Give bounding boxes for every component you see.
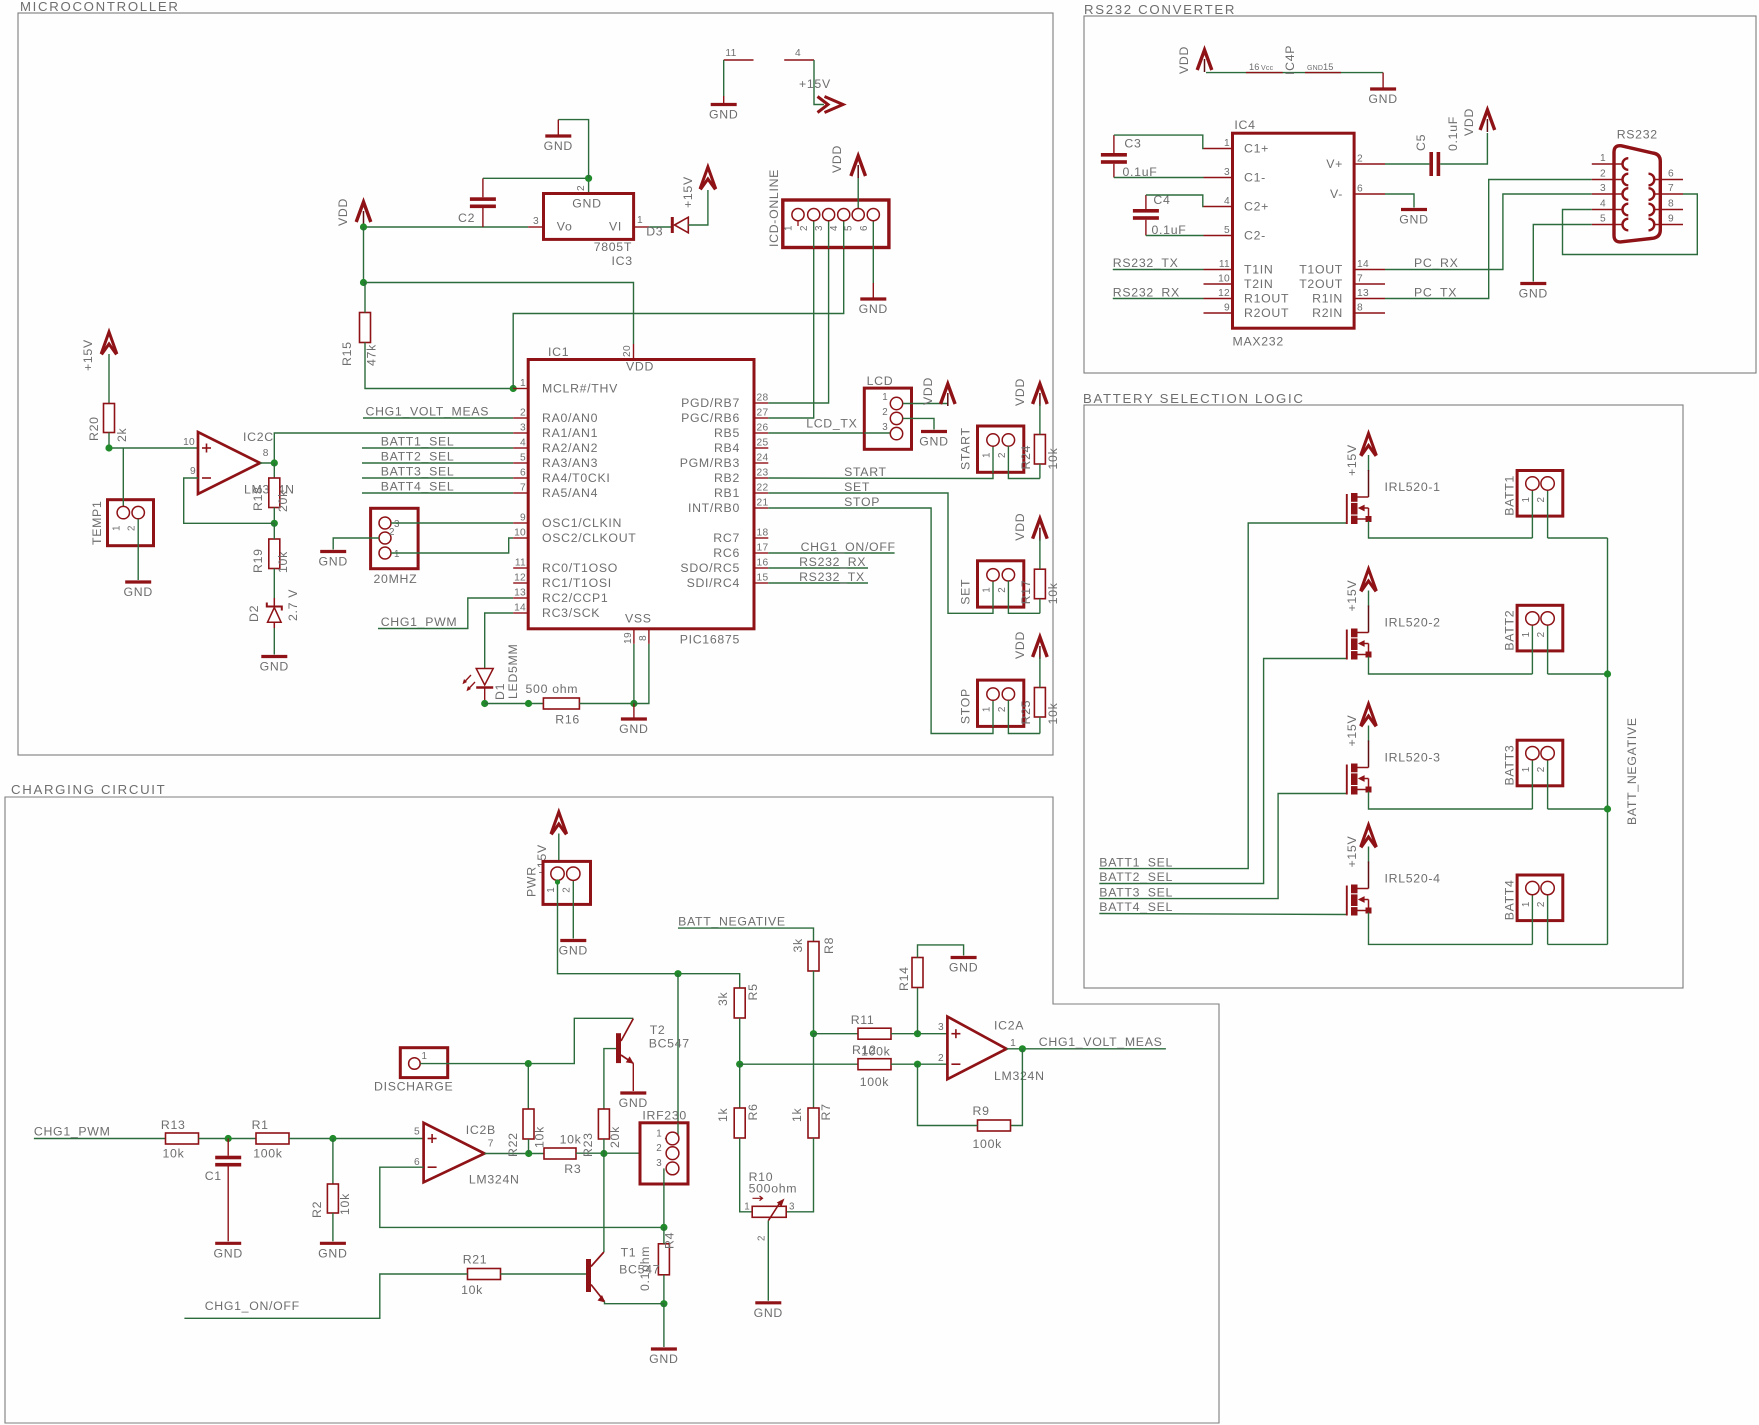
wire BATT4 pin2 lead bbox=[1547, 894, 1549, 944]
svg-text:16: 16 bbox=[1249, 62, 1260, 72]
resistor R22 10k bbox=[523, 1109, 534, 1139]
pin 10 T2IN of IC4 bbox=[1204, 283, 1233, 285]
svg-text:6: 6 bbox=[859, 225, 870, 231]
wire +15V to drain of IRL520-3 bbox=[1368, 726, 1370, 742]
wire R16 to VSS/GND bbox=[579, 703, 634, 705]
pin 13 RC2/CCP1 of IC1 bbox=[513, 597, 528, 599]
pin 3 RA1/AN1 of IC1 bbox=[513, 432, 528, 434]
pin 6 RA4/T0CKI of IC1 bbox=[513, 477, 528, 479]
wire R13 to R1 bbox=[199, 1138, 257, 1140]
trimpot R10 500ohm bbox=[752, 1206, 786, 1217]
svg-text:CHG1_ON/OFF: CHG1_ON/OFF bbox=[205, 1299, 300, 1313]
wire PC_TX R1IN to DB9 pin2 bbox=[1385, 180, 1592, 299]
svg-text:28: 28 bbox=[757, 393, 769, 404]
svg-text:16: 16 bbox=[757, 558, 769, 569]
svg-text:PWR: PWR bbox=[525, 866, 539, 897]
wire LED to R16 bbox=[485, 703, 544, 705]
pin 14 T1OUT of IC4 bbox=[1354, 269, 1385, 271]
wire BATT2 pin1 lead bbox=[1531, 624, 1533, 674]
svg-text:BATT1_SEL: BATT1_SEL bbox=[381, 435, 455, 449]
ground GND (LCD) bbox=[921, 430, 947, 433]
capacitor C1 bbox=[227, 1139, 229, 1156]
zener diode D2 2.7V bbox=[273, 598, 275, 607]
resistor R13 10k bbox=[166, 1133, 199, 1144]
pad 5 of ICD-ONLINE bbox=[852, 209, 864, 221]
pin 11 T1IN of IC4 bbox=[1204, 269, 1233, 271]
wire PWR pin2 to GND bbox=[572, 874, 574, 939]
wire START pin2 to resistor bbox=[1008, 446, 1040, 479]
svg-text:500 ohm: 500 ohm bbox=[526, 682, 579, 696]
svg-text:IRL520-1: IRL520-1 bbox=[1385, 480, 1441, 494]
svg-text:+15V: +15V bbox=[81, 339, 95, 371]
svg-text:C1-: C1- bbox=[1244, 171, 1266, 185]
op-amp IC2B bbox=[424, 1123, 485, 1183]
svg-text:8: 8 bbox=[638, 635, 649, 641]
svg-text:R2OUT: R2OUT bbox=[1244, 306, 1289, 320]
pin 9 of RS232 DB9 bbox=[1654, 224, 1683, 226]
svg-text:R9: R9 bbox=[973, 1104, 990, 1118]
pad 3 of ICD-ONLINE bbox=[823, 209, 835, 221]
wire BATT3 pin2 to BATT_NEGATIVE bus bbox=[1548, 808, 1608, 810]
svg-text:20k: 20k bbox=[608, 1126, 622, 1148]
wire BATT3_SEL to RA4 bbox=[362, 477, 513, 479]
pin 20 stub VDD bbox=[633, 344, 635, 360]
wire BATT1 pin2 lead bbox=[1547, 490, 1549, 539]
wire BATT1_SEL to RA2 bbox=[362, 447, 513, 449]
wire IC2B minus feedback bbox=[380, 1167, 664, 1227]
svg-text:R1OUT: R1OUT bbox=[1244, 292, 1289, 306]
connector SET button bbox=[978, 561, 1024, 607]
connector BATT1 bbox=[1517, 471, 1563, 517]
connector PWR bbox=[543, 861, 591, 904]
wire BATT2_SEL to gate of IRL520-2 bbox=[1099, 659, 1347, 884]
pin 27 PGC/RB6 of IC1 bbox=[754, 417, 768, 419]
svg-text:T2OUT: T2OUT bbox=[1299, 277, 1343, 291]
junction R18/R19 bbox=[271, 520, 278, 527]
junction LED cathode bbox=[481, 700, 488, 707]
wire DB9 pin4 to pin7 loop bbox=[1563, 194, 1698, 255]
svg-text:1: 1 bbox=[546, 887, 557, 893]
svg-text:+15V: +15V bbox=[1345, 444, 1359, 476]
pin 5 C2- of IC4 bbox=[1204, 235, 1233, 237]
capacitor C2 bbox=[482, 208, 484, 228]
pin 8 of RS232 DB9 bbox=[1654, 209, 1683, 211]
svg-text:GND: GND bbox=[649, 1352, 678, 1366]
supply VDD arrow at regulator output bbox=[356, 202, 371, 222]
junction at R16 left bbox=[525, 700, 532, 707]
svg-text:11: 11 bbox=[725, 48, 736, 59]
svg-text:BATT2: BATT2 bbox=[1503, 610, 1517, 651]
pin 16 VCC stub IC4P bbox=[1246, 72, 1283, 74]
svg-text:24: 24 bbox=[757, 453, 769, 464]
svg-text:3: 3 bbox=[1600, 183, 1606, 194]
svg-text:R23: R23 bbox=[581, 1132, 595, 1157]
svg-text:1: 1 bbox=[784, 225, 795, 231]
transistor IRL520-2 MOSFET bbox=[1368, 606, 1370, 633]
svg-text:BATTERY SELECTION LOGIC: BATTERY SELECTION LOGIC bbox=[1083, 391, 1305, 406]
wire BATT1_SEL to gate of IRL520-1 bbox=[1099, 523, 1347, 869]
svg-text:R21: R21 bbox=[463, 1253, 488, 1267]
svg-text:2: 2 bbox=[997, 452, 1008, 458]
pin 4 power stub of IC2 bbox=[784, 59, 814, 61]
RS232 driver IC4 MAX232 bbox=[1233, 133, 1355, 328]
wire CHG1_ON/OFF stub bbox=[768, 552, 894, 554]
wire V+ to C5 bbox=[1385, 163, 1429, 165]
supply +15V (PWR) bbox=[551, 812, 567, 834]
svg-text:SET: SET bbox=[844, 480, 870, 494]
microcontroller IC1 PIC16875 bbox=[528, 360, 754, 629]
wire pin4 to +15V bbox=[814, 60, 824, 105]
ground GND (TEMP1) bbox=[125, 580, 151, 583]
wire LCD pin2 to GND bbox=[903, 418, 934, 429]
svg-text:3: 3 bbox=[656, 1158, 662, 1169]
svg-text:PGD/RB7: PGD/RB7 bbox=[681, 396, 740, 410]
ground GND (IC2 pin11) bbox=[723, 96, 725, 105]
svg-text:GND: GND bbox=[1519, 287, 1548, 301]
svg-text:10k: 10k bbox=[1046, 447, 1060, 469]
pin 1 of RS232 DB9 bbox=[1592, 163, 1623, 165]
wire C5 to VDD bbox=[1440, 133, 1487, 164]
supply VDD (ICD pin5) bbox=[851, 156, 866, 176]
svg-text:CHG1_PWM: CHG1_PWM bbox=[381, 615, 458, 629]
svg-text:CHARGING CIRCUIT: CHARGING CIRCUIT bbox=[11, 782, 166, 797]
svg-text:R7: R7 bbox=[819, 1103, 833, 1120]
svg-text:10k: 10k bbox=[560, 1133, 582, 1147]
pin 8 stub VSS bbox=[648, 629, 650, 644]
wire RC3 to LED D1 bbox=[485, 613, 514, 668]
resistor R17 10k bbox=[1034, 569, 1045, 599]
junction bus/BATT3 bbox=[1604, 805, 1611, 812]
svg-text:3: 3 bbox=[882, 422, 888, 433]
svg-text:R13: R13 bbox=[161, 1118, 186, 1132]
svg-text:9: 9 bbox=[190, 466, 196, 477]
svg-text:GND: GND bbox=[1399, 213, 1428, 227]
svg-text:7: 7 bbox=[520, 483, 526, 494]
connector ICD-ONLINE bbox=[783, 200, 889, 248]
svg-text:IRL520-3: IRL520-3 bbox=[1385, 751, 1441, 765]
svg-text:4: 4 bbox=[795, 48, 801, 59]
wire R24 bottom bbox=[1039, 464, 1041, 479]
svg-text:2: 2 bbox=[1600, 169, 1606, 180]
svg-text:DISCHARGE: DISCHARGE bbox=[374, 1080, 453, 1094]
svg-text:GND: GND bbox=[123, 585, 152, 599]
wire +15V to R20 bbox=[108, 354, 110, 404]
junction VDD/R15 bbox=[360, 279, 367, 286]
supply VDD (START) bbox=[1033, 384, 1048, 404]
wire down to R7 bbox=[813, 1034, 815, 1108]
resistor R4 0.1ohm bbox=[658, 1244, 669, 1275]
svg-text:SDI/RC4: SDI/RC4 bbox=[687, 576, 740, 590]
svg-text:BATT2_SEL: BATT2_SEL bbox=[381, 450, 455, 464]
svg-text:1: 1 bbox=[637, 215, 643, 226]
wire output down to R18 bbox=[273, 463, 275, 478]
svg-text:IRL520-4: IRL520-4 bbox=[1385, 872, 1441, 886]
wire ICD pin3 lead bbox=[828, 221, 830, 248]
svg-text:+15V: +15V bbox=[1345, 715, 1359, 747]
wire down to R6 bbox=[739, 1064, 741, 1108]
connector START button bbox=[978, 426, 1024, 472]
svg-text:13: 13 bbox=[1357, 288, 1369, 299]
wire SET net bbox=[768, 493, 993, 613]
svg-text:BATT3_SEL: BATT3_SEL bbox=[381, 465, 455, 479]
svg-text:2: 2 bbox=[127, 525, 138, 531]
pin 6 V- of IC4 bbox=[1354, 193, 1385, 195]
pin 19 stub VSS bbox=[633, 629, 635, 644]
wire C2 top to 7805 GND pin bbox=[483, 178, 589, 193]
svg-text:RA4/T0CKI: RA4/T0CKI bbox=[542, 471, 611, 485]
op-amp IC2C bbox=[198, 432, 260, 494]
svg-text:15: 15 bbox=[757, 573, 769, 584]
pin 7 of RS232 DB9 bbox=[1654, 193, 1683, 195]
wire PGD/RB7 to ICD pin3 bbox=[768, 221, 828, 403]
svg-text:5: 5 bbox=[844, 225, 855, 231]
wire BATT1 pin1 lead bbox=[1531, 490, 1533, 539]
svg-text:IC3: IC3 bbox=[612, 254, 633, 268]
svg-text:TEMP1: TEMP1 bbox=[90, 501, 104, 546]
svg-text:IC1: IC1 bbox=[548, 345, 569, 359]
resistor R19 10k bbox=[269, 539, 280, 569]
svg-text:100k: 100k bbox=[973, 1137, 1003, 1151]
svg-text:SET: SET bbox=[959, 579, 973, 605]
svg-text:R19: R19 bbox=[251, 548, 265, 573]
svg-text:4: 4 bbox=[520, 438, 526, 449]
wire SET pin1 lead bbox=[992, 581, 994, 608]
svg-text:LCD: LCD bbox=[867, 374, 894, 388]
svg-text:11: 11 bbox=[1219, 259, 1230, 270]
svg-text:10k: 10k bbox=[533, 1126, 547, 1148]
svg-text:MAX232: MAX232 bbox=[1233, 335, 1284, 349]
wire R19 top bbox=[273, 523, 275, 539]
wire R1 to IC2B plus bbox=[289, 1138, 424, 1140]
svg-text:+15V: +15V bbox=[1345, 836, 1359, 868]
svg-text:1: 1 bbox=[520, 378, 526, 389]
supply +15V (IRL520-4) bbox=[1361, 825, 1377, 847]
pin 5 RA3/AN3 of IC1 bbox=[513, 462, 528, 464]
pin 15 GND stub IC4P bbox=[1305, 72, 1341, 74]
junction IRF source / R4 / feedback bbox=[660, 1224, 667, 1231]
svg-text:BATT1_SEL: BATT1_SEL bbox=[1099, 855, 1173, 869]
wire BATT4_SEL to gate of IRL520-4 bbox=[1099, 914, 1347, 915]
wire C3 top to IC4 pin1 bbox=[1114, 135, 1204, 148]
junction R4/T1 emitter bbox=[660, 1300, 667, 1307]
svg-text:LCD_TX: LCD_TX bbox=[806, 417, 857, 431]
svg-text:R1IN: R1IN bbox=[1312, 292, 1343, 306]
wire BATT2_SEL to RA3 bbox=[362, 462, 513, 464]
svg-text:IC2B: IC2B bbox=[466, 1123, 496, 1137]
pin 21 INT/RB0 of IC1 bbox=[754, 507, 768, 509]
wire IRF230 pin1 lead inside box bbox=[665, 1123, 678, 1139]
frame BATTERY SELECTION LOGIC section bbox=[1084, 405, 1683, 988]
capacitor C5 0.1uF bbox=[1429, 152, 1433, 176]
wire SET pin2 to resistor bbox=[1008, 581, 1040, 614]
junction +15V rail / IRF pin1 bbox=[674, 970, 681, 977]
wire +15V to drain of IRL520-1 bbox=[1368, 455, 1370, 471]
connector RS232 DB9 bbox=[1614, 146, 1660, 242]
svg-text:RA3/AN3: RA3/AN3 bbox=[542, 456, 598, 470]
wire pin11 to GND bbox=[723, 60, 725, 96]
svg-text:17: 17 bbox=[757, 543, 769, 554]
wire down to R22 bbox=[527, 1064, 529, 1109]
svg-text:R2: R2 bbox=[310, 1201, 324, 1218]
pin 3 stub 7805 bbox=[528, 226, 543, 228]
svg-text:100k: 100k bbox=[861, 1045, 891, 1059]
svg-text:4: 4 bbox=[829, 225, 840, 231]
svg-text:PGC/RB6: PGC/RB6 bbox=[681, 411, 740, 425]
connector TEMP1 bbox=[108, 500, 154, 546]
ground GND (DB9 pin5) bbox=[1520, 282, 1546, 285]
svg-text:STOP: STOP bbox=[844, 495, 880, 509]
supply VDD (IC4 power) bbox=[1197, 50, 1212, 70]
frame CHARGING CIRCUIT section bbox=[5, 797, 1219, 1423]
wire to GND bbox=[663, 1304, 665, 1347]
wire START pin1 lead bbox=[992, 446, 994, 473]
svg-text:RC1/T1OSI: RC1/T1OSI bbox=[542, 576, 612, 590]
resistor R11 100k bbox=[858, 1028, 891, 1039]
power MOSFET connector IRF230 bbox=[640, 1123, 688, 1184]
svg-text:2: 2 bbox=[799, 225, 810, 231]
svg-text:+15V: +15V bbox=[1345, 580, 1359, 612]
svg-text:VSS: VSS bbox=[625, 612, 652, 626]
junction bus/BATT2 bbox=[1604, 670, 1611, 677]
wire R11 to IC2A plus bbox=[891, 1033, 947, 1035]
pin 22 RB1 of IC1 bbox=[754, 492, 768, 494]
svg-text:27: 27 bbox=[757, 408, 769, 419]
svg-text:GND: GND bbox=[619, 722, 648, 736]
svg-text:R14: R14 bbox=[897, 966, 911, 991]
svg-text:OSC1/CLKIN: OSC1/CLKIN bbox=[542, 516, 622, 530]
svg-text:14: 14 bbox=[514, 603, 526, 614]
resistor R24 10k bbox=[1034, 435, 1045, 465]
wire IC2A output bbox=[1007, 1048, 1166, 1050]
svg-text:C3: C3 bbox=[1124, 137, 1141, 151]
resistor R5 3k bbox=[734, 988, 745, 1018]
svg-text:VDD: VDD bbox=[921, 377, 935, 405]
transistor IRL520-1 MOSFET bbox=[1368, 470, 1370, 497]
svg-text:10: 10 bbox=[1218, 274, 1230, 285]
svg-text:BATT1: BATT1 bbox=[1503, 475, 1517, 516]
svg-text:12: 12 bbox=[1218, 288, 1230, 299]
svg-text:BATT_NEGATIVE: BATT_NEGATIVE bbox=[1625, 717, 1639, 825]
svg-text:2: 2 bbox=[1536, 901, 1547, 907]
ground GND (ICD pin6) bbox=[872, 283, 874, 299]
svg-text:T1: T1 bbox=[621, 1246, 637, 1260]
svg-text:BATT2_SEL: BATT2_SEL bbox=[1099, 870, 1173, 884]
svg-text:21: 21 bbox=[757, 498, 769, 509]
connector BATT3 bbox=[1517, 740, 1563, 786]
pin 26 RB5 of IC1 bbox=[754, 432, 768, 434]
pin 5 of RS232 DB9 bbox=[1592, 224, 1623, 226]
svg-text:SDO/RC5: SDO/RC5 bbox=[680, 561, 740, 575]
resistor R18 20k bbox=[269, 478, 280, 508]
svg-text:R25: R25 bbox=[1019, 700, 1033, 725]
svg-text:RC6: RC6 bbox=[713, 546, 740, 560]
wire CHG1_VOLT_MEAS to RA0 bbox=[363, 417, 513, 419]
svg-text:STOP: STOP bbox=[959, 688, 973, 724]
wire BATT4_SEL to RA5 bbox=[362, 492, 513, 494]
svg-text:9: 9 bbox=[1224, 303, 1230, 314]
svg-text:25: 25 bbox=[757, 438, 769, 449]
svg-text:BC547: BC547 bbox=[619, 1263, 660, 1277]
wire IC2C output up to IC1 RA1 bbox=[260, 433, 513, 463]
svg-text:2: 2 bbox=[576, 185, 587, 191]
svg-text:1: 1 bbox=[1600, 153, 1606, 164]
svg-text:8: 8 bbox=[1357, 303, 1363, 314]
wire ICD pin2 lead bbox=[813, 221, 815, 248]
pin 16 SDO/RC5 of IC1 bbox=[754, 567, 768, 569]
svg-text:T2: T2 bbox=[650, 1023, 666, 1037]
wire R22 bottom to output rail bbox=[528, 1139, 530, 1154]
ground GND (R14) bbox=[951, 956, 977, 959]
pad 4 of ICD-ONLINE bbox=[838, 209, 850, 221]
svg-text:3k: 3k bbox=[791, 938, 805, 953]
wire R20 bottom to opamp + and TEMP1 bbox=[109, 433, 198, 449]
wire pot wiper to GND bbox=[767, 1221, 769, 1301]
svg-text:1: 1 bbox=[982, 452, 993, 458]
wire R12 to IC2A minus bbox=[891, 1063, 947, 1065]
wire R15 bottom to MCLR bbox=[365, 343, 513, 389]
svg-text:VDD: VDD bbox=[1013, 378, 1027, 406]
svg-text:CHG1_ON/OFF: CHG1_ON/OFF bbox=[801, 540, 896, 554]
svg-text:VDD: VDD bbox=[1177, 46, 1191, 74]
svg-text:26: 26 bbox=[757, 423, 769, 434]
svg-text:1k: 1k bbox=[716, 1107, 730, 1122]
pin 13 R1IN of IC4 bbox=[1354, 298, 1385, 300]
wire ICD pin6 to GND bbox=[872, 215, 874, 283]
resistor R8 3k bbox=[808, 942, 819, 972]
svg-text:100k: 100k bbox=[860, 1075, 890, 1089]
resistor R16 500 ohm bbox=[543, 698, 579, 709]
svg-text:14: 14 bbox=[1357, 259, 1369, 270]
svg-text:R11: R11 bbox=[851, 1013, 875, 1027]
svg-text:R1: R1 bbox=[252, 1118, 269, 1132]
wire R3 to IRF230 gate pin2 bbox=[576, 1152, 666, 1154]
svg-text:VDD: VDD bbox=[1013, 513, 1027, 541]
wire IC4P VDD to GND15 bbox=[1206, 72, 1383, 74]
svg-text:5: 5 bbox=[520, 453, 526, 464]
wire feedback down bbox=[1011, 1049, 1023, 1126]
svg-text:1: 1 bbox=[112, 525, 123, 531]
svg-text:1: 1 bbox=[1521, 901, 1532, 907]
junction output/feedback bbox=[1019, 1045, 1026, 1052]
svg-text:6: 6 bbox=[414, 1157, 420, 1168]
svg-text:2: 2 bbox=[757, 1235, 768, 1241]
crystal connector 20MHZ bbox=[371, 508, 419, 568]
wire source of IRL520-4 to BATT4 pin1 bbox=[1369, 913, 1533, 945]
pin 2 RA0/AN0 of IC1 bbox=[513, 417, 528, 419]
svg-text:15: 15 bbox=[1323, 62, 1334, 72]
wire V- to GND bbox=[1385, 194, 1414, 208]
svg-text:R3: R3 bbox=[564, 1162, 581, 1176]
wire STOP net bbox=[768, 508, 993, 734]
resistor R23 20k bbox=[598, 1109, 609, 1139]
resistor R15 47k bbox=[360, 313, 371, 343]
supply +15V (IRL520-3) bbox=[1361, 704, 1377, 726]
connector LCD bbox=[864, 388, 911, 449]
resistor R25 10k bbox=[1034, 688, 1045, 718]
wire IC2B output to R3 bbox=[485, 1153, 545, 1155]
svg-text:19: 19 bbox=[623, 632, 634, 644]
svg-text:18: 18 bbox=[757, 528, 769, 539]
svg-text:10k: 10k bbox=[276, 551, 290, 573]
svg-text:1: 1 bbox=[656, 1129, 662, 1140]
wire BATT2 pin2 to BATT_NEGATIVE bus bbox=[1548, 673, 1608, 675]
pin 1 C1+ of IC4 bbox=[1204, 148, 1233, 150]
frame RS232 CONVERTER section bbox=[1084, 16, 1756, 373]
svg-text:GND: GND bbox=[318, 1246, 347, 1260]
supply VDD (SET) bbox=[1033, 519, 1048, 539]
svg-text:LM324N: LM324N bbox=[469, 1173, 520, 1187]
capacitor C4 0.1uF bbox=[1145, 195, 1147, 209]
